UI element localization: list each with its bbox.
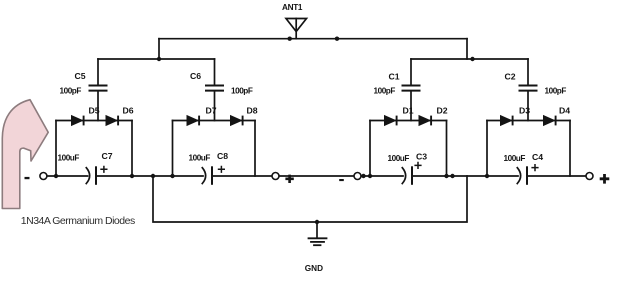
ground GND symbol — [309, 222, 327, 245]
diode D1 — [385, 116, 397, 126]
wire top antenna bus — [159, 38, 467, 40]
junction rail x446 — [444, 174, 448, 178]
junction rail x172 — [170, 174, 174, 178]
svg-text:D4: D4 — [559, 106, 570, 116]
wire cell3 right vertical — [446, 121, 448, 177]
wire bottom rail segment 2 — [97, 175, 203, 177]
capacitor C2 — [520, 59, 537, 121]
junction rail x153 — [151, 174, 155, 178]
wire left drop from antenna bus — [158, 39, 160, 59]
svg-text:C3: C3 — [416, 152, 427, 162]
svg-text:D2: D2 — [437, 106, 448, 116]
callout arrow — [2, 100, 48, 209]
node terminal plus middle — [272, 173, 279, 180]
wire cell1 right vertical — [131, 121, 133, 177]
junction rail x370 — [368, 174, 372, 178]
junction C1-C2 bus — [470, 57, 474, 61]
diode D2 — [419, 116, 431, 126]
junction rail x56 — [54, 174, 58, 178]
svg-text:100uF: 100uF — [58, 153, 80, 162]
junction rail x363 — [361, 174, 365, 178]
diode D8 — [231, 116, 243, 126]
svg-text:D5: D5 — [89, 106, 100, 116]
svg-text:100uF: 100uF — [504, 154, 526, 163]
wire bottom rail segment 1 — [47, 175, 88, 177]
wire bottom rail segment 6 — [413, 175, 518, 177]
svg-text:D7: D7 — [206, 106, 217, 116]
polarity sign plus far right — [600, 174, 610, 184]
svg-text:100pF: 100pF — [374, 87, 396, 96]
svg-text:C8: C8 — [217, 151, 228, 161]
diode D4 — [544, 116, 556, 126]
wire bottom rail segment 7 — [528, 175, 586, 177]
capacitor C4 plus mark — [531, 164, 538, 171]
svg-text:C5: C5 — [75, 71, 86, 81]
svg-text:100uF: 100uF — [388, 154, 410, 163]
wire cell2 left vertical — [172, 121, 174, 177]
capacitor C7 — [86, 167, 96, 184]
capacitor C8 plus mark — [218, 166, 225, 173]
diode D5 — [72, 116, 84, 126]
wire cell3 left vertical — [369, 121, 371, 177]
svg-text:C4: C4 — [532, 152, 543, 162]
junction on antenna bus left — [288, 37, 292, 41]
polarity sign minus middle — [339, 179, 344, 181]
svg-text:100uF: 100uF — [189, 153, 211, 162]
svg-text:100pF: 100pF — [60, 87, 82, 96]
diode D6 — [106, 116, 118, 126]
wire right drop from antenna bus — [466, 39, 468, 59]
capacitor C3 plus mark — [414, 162, 421, 169]
junction ground rail — [315, 220, 319, 224]
junction C5-C6 bus — [157, 57, 161, 61]
svg-text:100pF: 100pF — [545, 87, 567, 96]
wire bottom rail segment 4 — [279, 175, 354, 177]
node terminal plus right — [586, 173, 593, 180]
wire diode row cell 1 — [56, 120, 132, 122]
wire C5-C6 top bus — [98, 58, 215, 60]
node terminal minus middle — [354, 173, 361, 180]
wire diode row cell 3 — [370, 120, 447, 122]
wire cell1 left vertical — [55, 121, 57, 177]
junction rail x132 — [130, 174, 134, 178]
junction on antenna bus right — [335, 37, 339, 41]
svg-text:C1: C1 — [389, 72, 400, 82]
wire diode row cell 4 — [487, 120, 570, 122]
polarity sign plus middle — [285, 175, 293, 183]
svg-text:D1: D1 — [403, 106, 414, 116]
node terminal minus left — [40, 173, 47, 180]
wire bottom rail segment 3 — [213, 175, 272, 177]
wire cell2 right vertical — [254, 121, 256, 177]
wire cell4 left vertical — [486, 121, 488, 177]
svg-text:C6: C6 — [190, 71, 201, 81]
capacitor C5 — [90, 59, 107, 121]
wire diode row cell 2 — [173, 120, 256, 122]
capacitor C6 — [206, 59, 223, 121]
svg-text:100pF: 100pF — [231, 87, 253, 96]
wire C1-C2 top bus — [411, 58, 528, 60]
junction rail x452 — [450, 174, 454, 178]
junction rail x487 — [485, 174, 489, 178]
svg-text:C2: C2 — [505, 72, 516, 82]
svg-text:D8: D8 — [247, 106, 258, 116]
wire left ground drop — [153, 176, 467, 222]
diode D7 — [187, 116, 199, 126]
capacitor C4 — [517, 167, 527, 184]
svg-text:1N34A Germanium Diodes: 1N34A Germanium Diodes — [21, 215, 135, 227]
svg-text:GND: GND — [305, 264, 323, 273]
polarity sign minus far left — [25, 177, 30, 179]
svg-text:D6: D6 — [123, 106, 134, 116]
svg-text:D3: D3 — [519, 106, 530, 116]
capacitor C1 — [403, 59, 420, 121]
antenna ANT1 — [286, 19, 307, 39]
svg-text:C7: C7 — [102, 151, 113, 161]
diode D3 — [501, 116, 513, 126]
wire bottom rail segment 5 — [361, 175, 403, 177]
capacitor C3 — [402, 167, 412, 184]
wire cell4 right vertical — [569, 121, 571, 177]
capacitor C7 plus mark — [100, 166, 107, 173]
svg-text:ANT1: ANT1 — [282, 3, 303, 12]
capacitor C8 — [202, 167, 212, 184]
